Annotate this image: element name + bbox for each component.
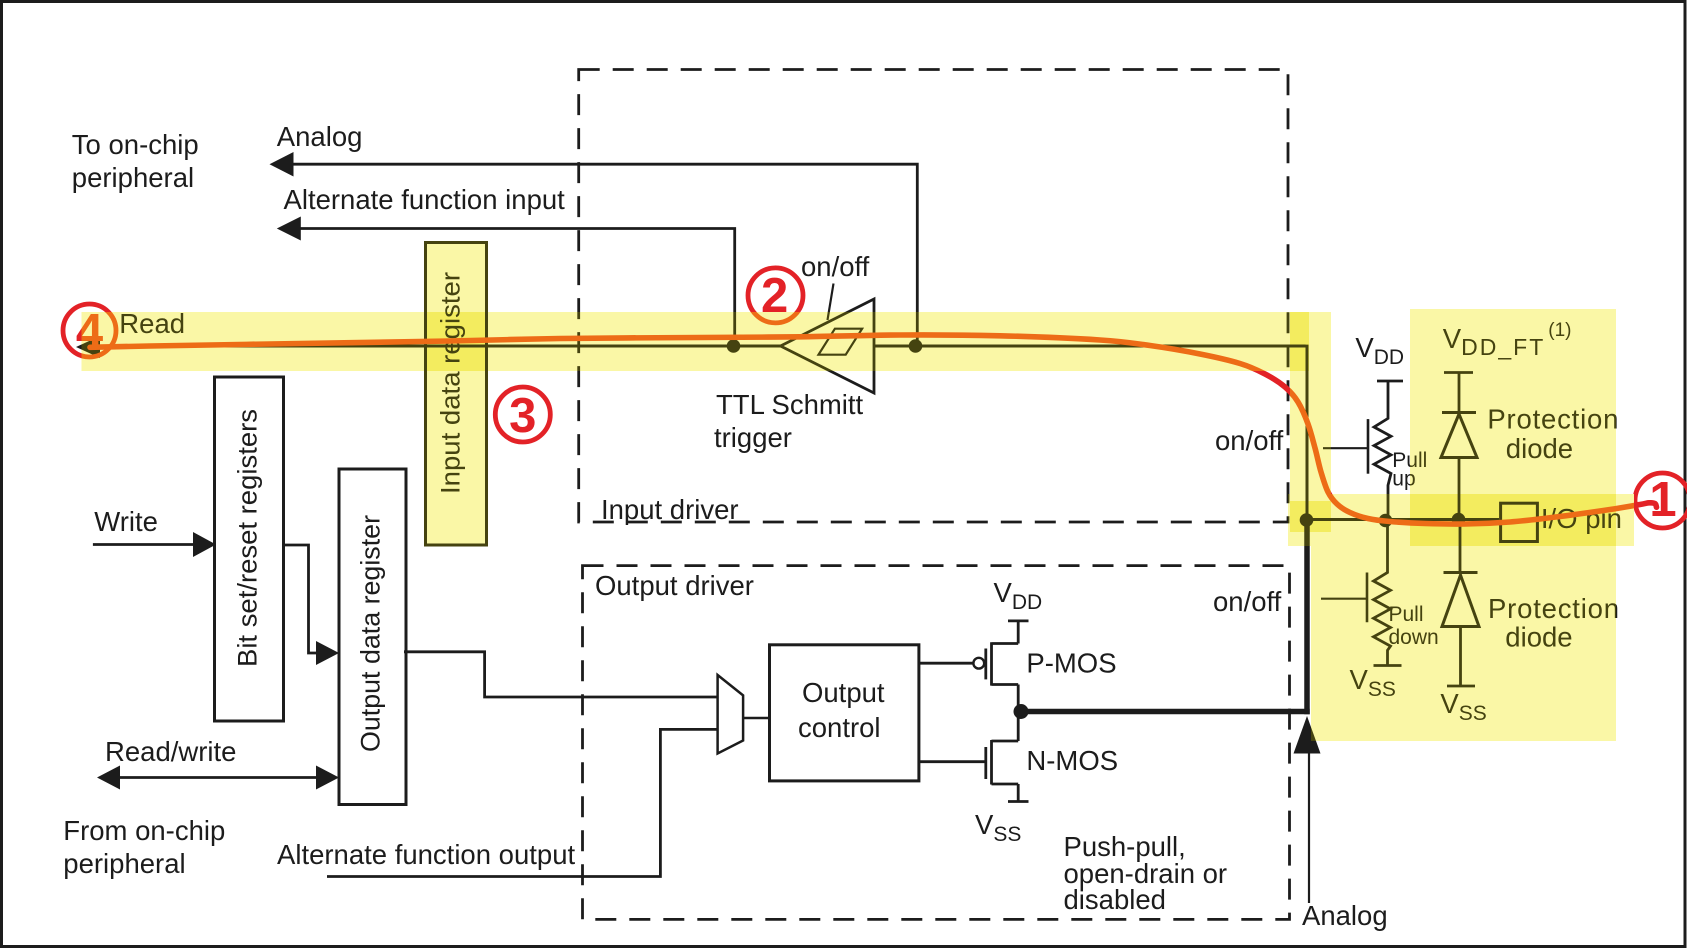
highlight overlap: read band x vertical band — [1290, 312, 1309, 371]
highlight overlap: box x read band — [426, 312, 487, 371]
svg-text:3: 3 — [509, 389, 536, 443]
highlight: read path band — [82, 312, 1310, 371]
highlight: protection diode block top — [1410, 309, 1616, 546]
annotation circle 4 — [63, 304, 116, 357]
svg-text:1: 1 — [1649, 473, 1676, 527]
annotation circle 3 — [495, 387, 550, 442]
highlight: pull-down/diode block bottom — [1311, 546, 1616, 741]
input data register box olive border — [426, 243, 487, 546]
highlight: input data register box fill — [426, 243, 487, 546]
highlight: I/O pin band — [1288, 494, 1634, 546]
red curve — [90, 335, 1657, 524]
annotation circle 2 — [748, 268, 803, 323]
highlight overlap: I/O band x diode block — [1410, 494, 1616, 546]
circled numbers — [63, 268, 1687, 528]
yellow highlight rects — [82, 243, 1635, 742]
highlight: vertical connector band — [1290, 312, 1331, 535]
annotation circle 1 — [1635, 473, 1687, 528]
highlight overlap: vertical band x I/O band — [1290, 501, 1331, 532]
